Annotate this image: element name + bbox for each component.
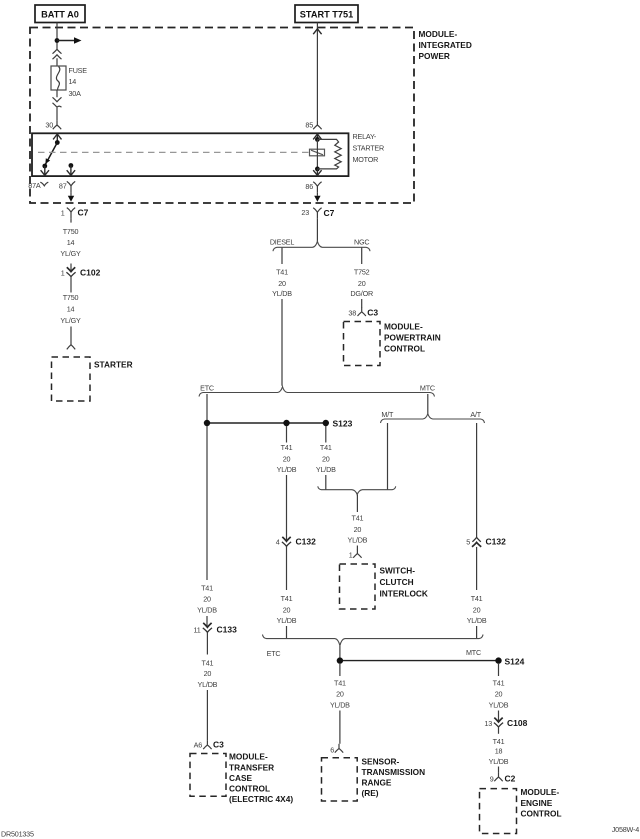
inline connector chevrons (up) xyxy=(53,49,62,59)
relay armature symbol xyxy=(310,149,325,156)
svg-text:STARTER: STARTER xyxy=(353,144,384,153)
starter box xyxy=(52,357,91,401)
wire to switch-clutch interlock xyxy=(356,495,358,550)
merge brace ETC / MTC to S124 xyxy=(263,635,484,646)
relay coil branch pin 85 arrow xyxy=(313,134,321,139)
svg-text:A6: A6 xyxy=(194,740,203,749)
wire label T41 20 YL/DB xyxy=(330,679,350,710)
wire label T41 20 YL/DB xyxy=(277,594,297,625)
svg-text:T41: T41 xyxy=(493,679,505,688)
svg-text:T41: T41 xyxy=(281,443,293,452)
svg-text:23: 23 xyxy=(301,208,309,217)
wire label T41 20 YL/DB xyxy=(316,443,336,474)
relay switch blade xyxy=(45,143,58,166)
wire M/T branch xyxy=(387,423,389,490)
splice brace DIESEL / NGC xyxy=(273,241,370,251)
relay coil bottom node xyxy=(315,167,320,172)
wire label T41 20 YL/DB xyxy=(348,514,368,545)
wire brace to splice line xyxy=(339,646,341,658)
svg-text:TRANSMISSION: TRANSMISSION xyxy=(362,767,426,777)
svg-text:ENGINE: ENGINE xyxy=(521,798,553,808)
svg-text:C133: C133 xyxy=(217,624,238,634)
wire label T41 20 YL/DB xyxy=(198,659,218,689)
svg-text:T41: T41 xyxy=(201,584,213,593)
svg-text:T41: T41 xyxy=(493,737,505,746)
svg-text:CLUTCH: CLUTCH xyxy=(380,577,414,587)
svg-text:C132: C132 xyxy=(486,537,507,547)
exit arrow at module border xyxy=(314,196,320,202)
svg-text:ETC: ETC xyxy=(267,649,281,658)
wire label T41 20 YL/DB xyxy=(277,443,297,474)
svg-text:20: 20 xyxy=(203,595,211,604)
wire label T41 20 YL/DB xyxy=(197,584,217,615)
wire label T41 20 YL/DB xyxy=(272,268,292,299)
connector C3 pin A6 xyxy=(194,739,225,749)
pin 85 connector xyxy=(313,120,321,129)
svg-text:20: 20 xyxy=(283,454,291,463)
svg-text:CONTROL: CONTROL xyxy=(521,808,562,818)
svg-text:YL/DB: YL/DB xyxy=(489,757,509,766)
svg-text:YL/DB: YL/DB xyxy=(277,465,297,474)
wire label T752 20 DG/OR xyxy=(350,268,373,299)
svg-text:C3: C3 xyxy=(367,308,378,318)
svg-text:MTC: MTC xyxy=(466,648,481,657)
svg-text:38: 38 xyxy=(348,309,356,318)
svg-text:YL/DB: YL/DB xyxy=(277,616,297,625)
svg-text:M/T: M/T xyxy=(381,410,394,419)
wire NGC branch xyxy=(361,248,363,308)
svg-text:1: 1 xyxy=(61,268,65,277)
entry arrow at module border xyxy=(313,29,321,34)
wire from S123 to C132 pin 4 xyxy=(286,426,288,541)
connector C7 pin 23 xyxy=(301,208,334,219)
svg-text:YL/DB: YL/DB xyxy=(467,616,487,625)
relay coil 86 exit arrow xyxy=(313,169,321,176)
relay coil winding xyxy=(317,139,341,169)
svg-text:YL/DB: YL/DB xyxy=(197,605,217,614)
svg-text:START T751: START T751 xyxy=(300,9,353,19)
svg-text:T41: T41 xyxy=(352,514,364,523)
splice brace ETC / MTC xyxy=(199,387,435,397)
svg-text:14: 14 xyxy=(67,305,75,314)
fuse FUSE 14 30A xyxy=(51,66,87,98)
svg-text:MODULE-: MODULE- xyxy=(384,322,423,332)
svg-text:INTERLOCK: INTERLOCK xyxy=(380,588,428,598)
label MODULE-INTEGRATED POWER xyxy=(419,29,472,61)
label MODULE-TRANSFER CASE CONTROL (ELECTRIC 4X4) xyxy=(229,752,293,804)
svg-text:DR501335: DR501335 xyxy=(1,830,34,839)
svg-text:(RE): (RE) xyxy=(362,788,379,798)
wire from S123 to merge brace xyxy=(325,426,327,490)
svg-text:INTEGRATED: INTEGRATED xyxy=(419,40,472,50)
relay contact 87 node xyxy=(69,163,74,168)
module-integrated power dashed box xyxy=(30,28,414,204)
svg-text:TRANSFER: TRANSFER xyxy=(229,762,274,772)
pin 86 connector xyxy=(313,182,321,193)
relay coil top node xyxy=(315,137,320,142)
splice brace M/T / A/T xyxy=(381,414,485,423)
svg-text:DG/OR: DG/OR xyxy=(350,289,373,298)
inline connector C132 pin 4 xyxy=(276,537,316,590)
svg-text:20: 20 xyxy=(204,669,212,678)
svg-text:85: 85 xyxy=(305,121,313,130)
svg-text:4: 4 xyxy=(276,538,280,547)
svg-text:20: 20 xyxy=(473,605,481,614)
svg-text:J058W-4: J058W-4 xyxy=(612,825,639,834)
svg-text:STARTER: STARTER xyxy=(94,360,133,370)
connector pin 1 xyxy=(349,549,362,559)
inline connector C133 pin 11 xyxy=(193,623,237,655)
svg-text:T752: T752 xyxy=(354,268,370,277)
svg-text:18: 18 xyxy=(495,746,503,755)
svg-text:20: 20 xyxy=(354,525,362,534)
pin 87A chevron xyxy=(40,182,48,186)
splice S123 xyxy=(204,419,353,429)
svg-text:30: 30 xyxy=(45,121,53,130)
svg-text:CONTROL: CONTROL xyxy=(384,343,425,353)
svg-text:C3: C3 xyxy=(213,739,224,749)
inline connector C102 pin 1 xyxy=(61,264,101,293)
label MODULE-ENGINE CONTROL xyxy=(521,787,562,818)
merge brace to clutch interlock xyxy=(318,486,396,494)
wire pin 86 to C7 xyxy=(316,193,318,196)
terminal box BATT A0 xyxy=(35,5,85,23)
svg-text:1: 1 xyxy=(349,550,353,559)
label SWITCH-CLUTCH INTERLOCK xyxy=(380,566,428,599)
svg-text:MOTOR: MOTOR xyxy=(353,155,379,164)
svg-text:T750: T750 xyxy=(63,227,79,236)
svg-text:C2: C2 xyxy=(505,774,516,784)
wire to transmission range sensor xyxy=(339,664,341,744)
svg-text:14: 14 xyxy=(67,238,75,247)
switch-clutch interlock box xyxy=(340,564,376,609)
wire pin 87 to C7 xyxy=(70,192,72,195)
relay blade arrowhead xyxy=(45,158,50,164)
svg-text:T41: T41 xyxy=(276,268,288,277)
svg-text:1: 1 xyxy=(61,208,65,217)
svg-text:YL/DB: YL/DB xyxy=(348,535,368,544)
svg-text:MTC: MTC xyxy=(420,383,435,392)
svg-text:5: 5 xyxy=(466,538,470,547)
svg-text:14: 14 xyxy=(69,77,77,86)
svg-text:A/T: A/T xyxy=(470,410,481,419)
svg-text:C7: C7 xyxy=(78,207,89,217)
sensor-transmission range box xyxy=(322,758,358,801)
svg-text:87: 87 xyxy=(59,182,67,191)
svg-text:SWITCH-: SWITCH- xyxy=(380,566,416,576)
splice S124 xyxy=(337,656,525,666)
svg-text:S124: S124 xyxy=(505,656,525,666)
exit arrow at module border xyxy=(68,196,74,202)
svg-text:20: 20 xyxy=(336,690,344,699)
wire to transfer case module xyxy=(206,690,208,740)
svg-text:RANGE: RANGE xyxy=(362,778,392,788)
svg-text:YL/GY: YL/GY xyxy=(60,316,81,325)
svg-text:YL/DB: YL/DB xyxy=(316,465,336,474)
wire label T750 14 YL/GY xyxy=(60,293,81,325)
svg-text:SENSOR-: SENSOR- xyxy=(362,756,400,766)
connector C2 pin 9 xyxy=(490,767,516,784)
svg-text:T41: T41 xyxy=(281,594,293,603)
svg-text:CASE: CASE xyxy=(229,773,253,783)
relay switch common node xyxy=(55,140,60,145)
module transfer case control box xyxy=(190,754,226,797)
inline connector chevrons (down) xyxy=(53,97,62,107)
wire label T750 14 YL/GY xyxy=(60,227,81,258)
label RELAY-STARTER MOTOR xyxy=(353,132,384,164)
svg-text:ETC: ETC xyxy=(200,383,214,392)
svg-text:9: 9 xyxy=(490,775,494,784)
svg-text:87A: 87A xyxy=(28,181,41,190)
wire branch with right arrow xyxy=(57,37,82,44)
wire START T751 to pin 85 xyxy=(316,23,318,121)
inline connector C108 pin 13 xyxy=(484,718,527,734)
svg-text:C132: C132 xyxy=(296,537,317,547)
svg-text:C102: C102 xyxy=(80,267,101,277)
terminal box START T751 xyxy=(295,5,358,23)
connector pin 6 xyxy=(330,744,343,755)
wire fuse to relay pin 30 xyxy=(56,90,58,120)
connector C7 pin 1 xyxy=(61,207,89,222)
label SENSOR-TRANSMISSION RANGE (RE) xyxy=(362,756,426,798)
wire into merge brace xyxy=(286,626,288,638)
relay box xyxy=(32,133,349,176)
svg-text:MODULE-: MODULE- xyxy=(521,787,560,797)
svg-text:(ELECTRIC 4X4): (ELECTRIC 4X4) xyxy=(229,794,293,804)
svg-text:6: 6 xyxy=(330,745,334,754)
svg-text:T41: T41 xyxy=(334,679,346,688)
svg-text:DIESEL: DIESEL xyxy=(270,238,295,247)
svg-text:POWER: POWER xyxy=(419,51,450,61)
svg-text:YL/DB: YL/DB xyxy=(272,289,292,298)
pin 30 connector xyxy=(53,120,61,129)
wire into merge brace xyxy=(476,626,478,638)
svg-text:RELAY-: RELAY- xyxy=(353,132,377,141)
wire C7 23 down xyxy=(316,219,318,242)
svg-text:20: 20 xyxy=(495,690,503,699)
svg-text:20: 20 xyxy=(283,605,291,614)
relay switch pin 30 entry arrow xyxy=(53,134,61,143)
relay 87A exit arrow xyxy=(41,166,49,175)
svg-text:30A: 30A xyxy=(69,89,82,98)
svg-text:NGC: NGC xyxy=(354,238,369,247)
svg-text:T750: T750 xyxy=(63,293,79,302)
pin 87 connector xyxy=(67,181,75,192)
svg-text:T41: T41 xyxy=(471,594,483,603)
relay coil vertical wire xyxy=(316,139,318,169)
svg-text:86: 86 xyxy=(305,182,313,191)
wire to starter xyxy=(70,327,72,345)
wire S123 to C133 xyxy=(206,426,208,627)
svg-text:YL/GY: YL/GY xyxy=(60,249,81,258)
label MODULE-POWERTRAIN CONTROL xyxy=(384,322,441,354)
module engine control box xyxy=(480,789,517,834)
svg-text:T41: T41 xyxy=(320,443,332,452)
relay 87 exit arrow xyxy=(67,166,75,176)
relay contact 87A node xyxy=(42,164,47,169)
svg-text:MODULE-: MODULE- xyxy=(229,752,268,762)
wire ETC branch xyxy=(206,394,208,420)
junction node dot xyxy=(55,38,60,43)
wire S124 to C108 xyxy=(498,664,500,722)
svg-text:YL/DB: YL/DB xyxy=(489,700,509,709)
wire label T41 18 YL/DB xyxy=(489,737,509,766)
svg-text:T41: T41 xyxy=(202,659,214,668)
svg-text:MODULE-: MODULE- xyxy=(419,29,458,39)
svg-text:20: 20 xyxy=(278,279,286,288)
wire label T41 20 YL/DB xyxy=(489,679,509,710)
relay actuator dashed link xyxy=(38,151,309,153)
inline connector C132 pin 5 xyxy=(466,537,506,590)
svg-text:C7: C7 xyxy=(324,208,335,218)
svg-text:11: 11 xyxy=(193,625,200,634)
svg-text:YL/DB: YL/DB xyxy=(330,700,350,709)
svg-text:FUSE: FUSE xyxy=(69,66,88,75)
wire label T41 20 YL/DB xyxy=(467,594,487,625)
svg-text:POWERTRAIN: POWERTRAIN xyxy=(384,332,441,342)
wire A/T branch xyxy=(476,423,478,538)
svg-text:S123: S123 xyxy=(333,419,353,429)
svg-text:13: 13 xyxy=(484,719,492,728)
svg-text:YL/DB: YL/DB xyxy=(198,680,218,689)
svg-text:20: 20 xyxy=(358,279,366,288)
wire BATT A0 down to fuse xyxy=(56,23,58,67)
svg-text:C108: C108 xyxy=(507,718,528,728)
wire DIESEL branch xyxy=(281,248,283,386)
connector C3 pin 38 xyxy=(348,307,378,317)
svg-text:CONTROL: CONTROL xyxy=(229,784,270,794)
wire MTC branch xyxy=(427,394,429,414)
svg-text:BATT A0: BATT A0 xyxy=(41,9,79,19)
starter pin connector xyxy=(67,345,75,350)
module powertrain control box xyxy=(344,322,381,366)
svg-text:20: 20 xyxy=(322,454,330,463)
